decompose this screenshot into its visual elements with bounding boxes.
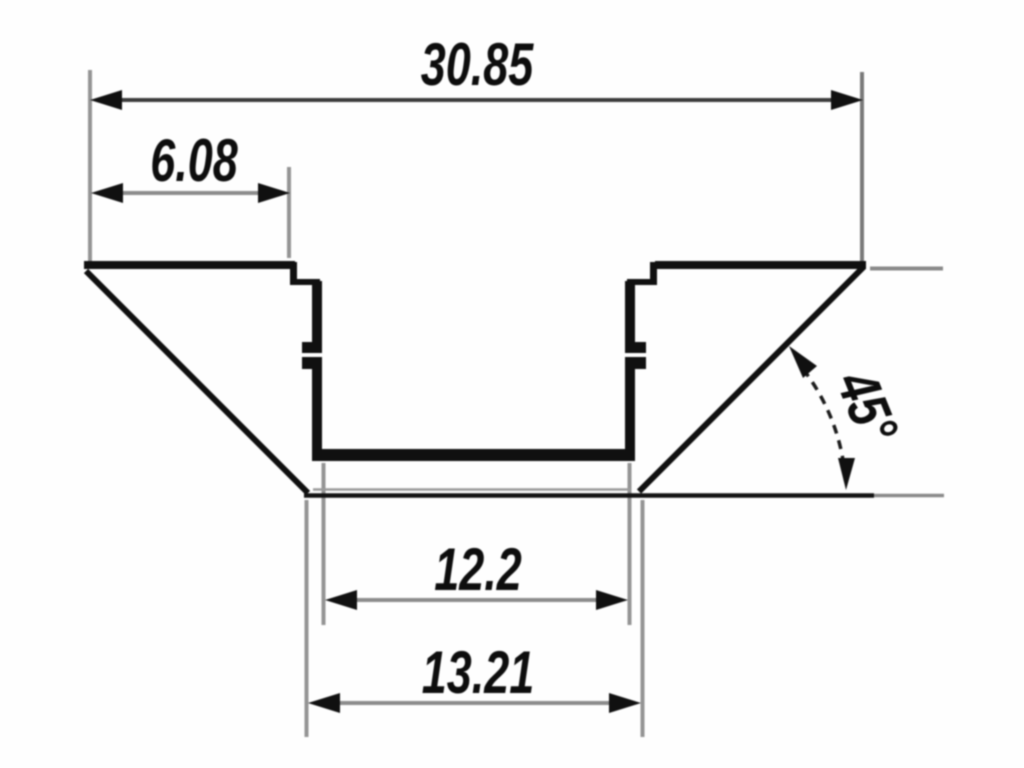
svg-text:6.08: 6.08 [150,128,238,195]
extension line left (x=90) [88,70,92,261]
dimension 6.08 right arrowhead [258,183,290,203]
dimension 6.08 left arrowhead [91,183,123,203]
extension line bottom inner-right (x=629.5) [628,463,632,625]
dimension 6.08 label [150,128,238,195]
profile top-left flat surface [84,261,295,269]
dimension 30.85 label [421,32,535,99]
profile channel floor [312,449,635,461]
dimension 12.2 left arrowhead [325,590,357,610]
angle arc lower arrowhead [838,458,855,490]
dimension 12.2 line [354,598,600,602]
bottom reference line gray tail [874,494,944,498]
dimension 30.85 left arrowhead [90,90,122,110]
profile top-right flat surface [655,261,866,269]
extension line mid (x=289, for 6.08) [287,167,291,258]
angle arc upper arrowhead [789,346,817,378]
extension line right (x=862) [860,72,864,263]
profile left diagonal outer face [86,271,308,493]
dimension 13.21 line [338,701,612,705]
angle label 45 degrees [823,361,910,452]
profile bottom face gray upper line [313,488,631,491]
profile bottom face line [304,493,874,498]
profile left inner wall [312,281,322,457]
dimension 6.08 line [120,191,262,195]
top-right reference line [870,267,943,271]
dimension 13.21 right arrowhead [609,693,641,713]
extension line bottom outer-left (x=306.5) [305,500,309,737]
profile right inner wall [625,281,635,457]
svg-text:12.2: 12.2 [434,537,522,604]
extension line bottom outer-right (x=642.5) [641,500,645,737]
profile right step ledge [627,279,657,285]
dimension 30.85 right arrowhead [831,90,863,110]
dimension 13.21 label [422,640,535,707]
profile right step vertical [650,262,657,285]
dimension 30.85 line [118,98,836,102]
dimension 12.2 right arrowhead [596,590,628,610]
profile left clip notch [300,342,322,369]
profile left step ledge [290,279,320,285]
profile left step vertical [290,262,297,285]
profile right clip notch [625,342,647,369]
dimension 12.2 label [434,537,522,604]
svg-text:30.85: 30.85 [421,32,535,99]
dimension 13.21 left arrowhead [308,693,340,713]
angle arc dashed [800,365,845,480]
extension line bottom inner-left (x=323.5) [322,463,326,625]
profile right diagonal outer face [639,267,864,492]
svg-text:13.21: 13.21 [422,640,535,707]
